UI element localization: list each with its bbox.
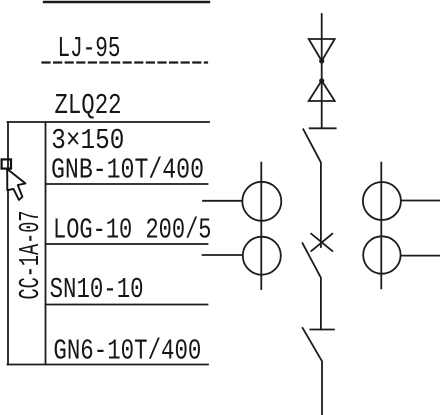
- svg-text:LJ-95: LJ-95: [58, 32, 121, 65]
- svg-text:GN6-10T/400: GN6-10T/400: [53, 335, 201, 368]
- wire: stub from right top CT: [401, 200, 440, 202]
- overhead line LJ-95 (dashed wire): [43, 61, 208, 63]
- CT right bottom winding circle: [363, 236, 400, 273]
- svg-text:GNB-10T/400: GNB-10T/400: [51, 154, 204, 187]
- disconnector GNB-10T/400: fixed contact bar: [310, 127, 336, 129]
- breaker SN10-10: bottom contact bar: [310, 329, 334, 331]
- svg-text:ZLQ22: ZLQ22: [55, 89, 122, 122]
- arrester gap electrode (down triangle): [309, 39, 335, 61]
- CT LOG-10 left bottom winding circle: [243, 237, 281, 275]
- wire: row divider under LOG-10 200/5: [46, 243, 208, 245]
- junction dot (lower gap electrode): [319, 78, 324, 83]
- wire: bracket left vertical: [7, 122, 9, 365]
- wire: stub from right bottom CT: [401, 255, 440, 257]
- wire: row divider under SN10-10: [46, 304, 208, 306]
- CT right top winding circle: [363, 182, 401, 220]
- svg-text:CC-1A-07: CC-1A-07: [14, 211, 47, 300]
- arrester gap electrode (up triangle): [309, 81, 335, 101]
- busbar line (top): [44, 1, 209, 3]
- junction dot (upper gap electrode): [319, 58, 324, 63]
- wire: stub to left bottom CT: [203, 254, 243, 256]
- cursor arrow: [7, 169, 25, 200]
- wire: stub to left top CT: [203, 200, 242, 202]
- wire: label column divider vertical: [45, 122, 47, 365]
- wire: arrester feeder vertical: [321, 14, 323, 128]
- disconnector GNB-10T/400: blade: [303, 129, 321, 247]
- breaker SN10-10: contact cross: [311, 234, 332, 251]
- CT LOG-10 left pair: primary wire: [260, 163, 262, 289]
- CT right pair: primary wire: [380, 163, 382, 289]
- wire: table top line: [8, 121, 210, 123]
- disconnector GN6-10T/400: blade: [303, 328, 322, 415]
- CT LOG-10 left top winding circle: [242, 182, 281, 221]
- svg-text:LOG-10 200/5: LOG-10 200/5: [53, 214, 212, 247]
- wire: table bottom line: [8, 364, 209, 366]
- svg-text:SN10-10: SN10-10: [50, 273, 144, 306]
- svg-text:3×150: 3×150: [51, 124, 124, 157]
- breaker SN10-10: blade: [303, 243, 321, 329]
- cursor pickbox: [2, 159, 11, 168]
- wire: row divider under GNB-10T/400: [46, 183, 208, 185]
